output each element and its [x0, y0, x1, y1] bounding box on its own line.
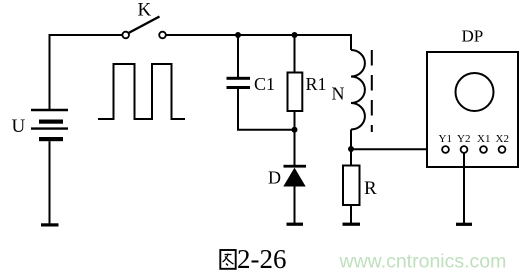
- wire junction to DP Y1: [351, 148, 442, 150]
- diode D: [283, 165, 306, 187]
- capacitor C1: [227, 77, 251, 89]
- terminal Y2: [461, 146, 468, 153]
- node R1 top junction: [292, 32, 298, 38]
- wire R1 bottom through junction to diode: [294, 111, 296, 166]
- core dashed line: [371, 50, 373, 132]
- resistor R1: [288, 73, 303, 112]
- svg-text:www.cntronics.com: www.cntronics.com: [339, 251, 507, 273]
- svg-text:R1: R1: [306, 74, 327, 94]
- svg-text:2-26: 2-26: [237, 244, 287, 274]
- terminal X1: [480, 146, 487, 153]
- svg-text:K: K: [138, 0, 152, 21]
- svg-text:R: R: [364, 178, 377, 199]
- svg-text:N: N: [332, 84, 345, 104]
- svg-text:U: U: [12, 116, 26, 137]
- svg-text:C1: C1: [254, 74, 275, 94]
- wire coil bottom to R: [350, 130, 352, 166]
- svg-text:Y2: Y2: [457, 133, 470, 145]
- svg-text:X1: X1: [477, 133, 490, 145]
- wire switch to coil corner: [166, 35, 351, 50]
- terminal Y1: [442, 146, 449, 153]
- svg-text:X2: X2: [496, 133, 509, 145]
- svg-text:DP: DP: [462, 27, 484, 46]
- inductor N: [351, 50, 365, 130]
- ground (diode): [287, 223, 304, 226]
- oscilloscope DP box: [427, 52, 518, 167]
- wire C1 branch upper: [237, 35, 239, 77]
- caption glyph 图: [220, 250, 235, 269]
- svg-text:D: D: [268, 168, 281, 188]
- node C1 top junction: [235, 32, 241, 38]
- pulse waveform: [98, 64, 185, 119]
- svg-text:Y1: Y1: [439, 133, 452, 145]
- ground (R): [343, 223, 361, 226]
- ground (DP): [456, 223, 472, 226]
- wire Y2 to ground: [463, 153, 465, 224]
- wire R to ground: [350, 205, 352, 224]
- scope screen circle: [456, 73, 494, 111]
- battery U: [31, 110, 68, 224]
- wire top bus: [50, 35, 123, 110]
- terminal X2: [499, 146, 506, 153]
- resistor R: [343, 166, 360, 206]
- wire C1 bottom to junction: [238, 89, 295, 130]
- node N/R junction: [348, 146, 354, 152]
- ground (battery): [41, 223, 59, 226]
- wire diode to ground: [294, 187, 296, 224]
- wire R1 branch upper: [294, 35, 296, 73]
- switch K: [122, 32, 129, 39]
- node C1/R1 bottom junction: [292, 127, 298, 133]
